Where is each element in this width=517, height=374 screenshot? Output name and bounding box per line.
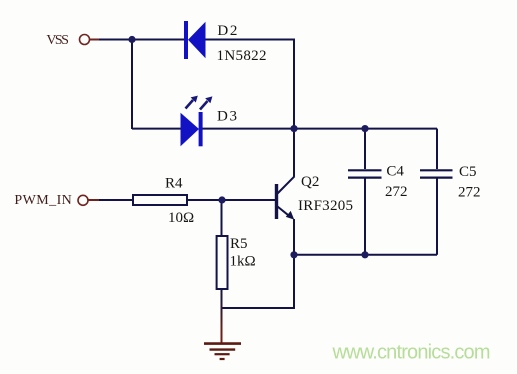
- svg-text:D2: D2: [217, 23, 237, 39]
- svg-text:VSS: VSS: [46, 33, 69, 48]
- svg-text:D3: D3: [217, 109, 237, 125]
- svg-text:Q2: Q2: [301, 174, 319, 190]
- svg-text:PWM_IN: PWM_IN: [14, 193, 71, 208]
- svg-text:272: 272: [458, 185, 481, 201]
- svg-text:1kΩ: 1kΩ: [230, 254, 256, 270]
- svg-text:1N5822: 1N5822: [217, 48, 267, 64]
- svg-text:10Ω: 10Ω: [168, 210, 194, 226]
- svg-text:R4: R4: [165, 176, 183, 192]
- svg-text:www.cntronics.com: www.cntronics.com: [332, 342, 491, 364]
- svg-text:C4: C4: [386, 164, 404, 180]
- svg-text:R5: R5: [230, 236, 248, 252]
- svg-text:272: 272: [385, 184, 408, 200]
- svg-text:C5: C5: [459, 164, 477, 180]
- svg-text:IRF3205: IRF3205: [298, 198, 353, 214]
